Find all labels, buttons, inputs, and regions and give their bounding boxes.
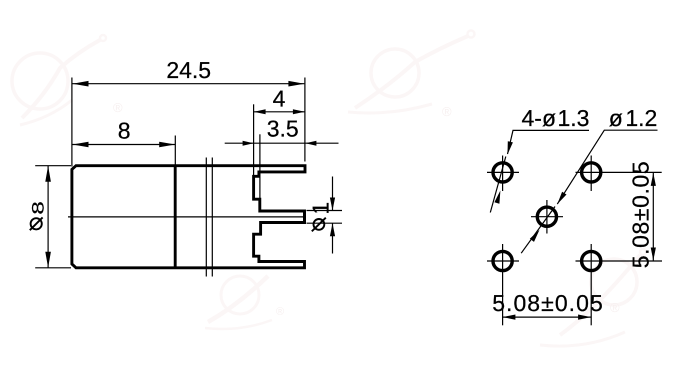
dim 24.5 extension line left bbox=[71, 78, 73, 167]
dim 4 extension line left bbox=[253, 104, 255, 176]
crosshair TR + right dim top extension bbox=[576, 171, 662, 173]
crosshair TL bbox=[487, 171, 519, 173]
center line of body bbox=[68, 216, 304, 218]
hole TR bbox=[582, 163, 601, 182]
crosshair M bbox=[531, 216, 563, 218]
dim dia1 extension bottom bbox=[307, 222, 343, 224]
dim dia8 extension bottom bbox=[35, 267, 71, 269]
svg-text:®: ® bbox=[610, 300, 620, 315]
dim 4 line bbox=[254, 111, 305, 113]
dim 3.5 extension line (inner step) bbox=[259, 134, 261, 199]
watermark logo bottom-right bbox=[540, 249, 646, 346]
crosshair BR + extensions bbox=[576, 260, 663, 262]
hole BR bbox=[582, 251, 601, 270]
svg-text:®: ® bbox=[276, 306, 284, 318]
leader 4-dia1.3 bbox=[508, 130, 590, 154]
leader dia1.2 bbox=[557, 130, 657, 204]
dim dia1 extension top bbox=[307, 210, 343, 212]
dim 3.5 line bbox=[225, 142, 339, 144]
dim dia1 line lower bbox=[332, 223, 334, 253]
prong end cap bbox=[303, 210, 306, 224]
dim 8 line bbox=[73, 144, 176, 146]
svg-text:5.08±0.05: 5.08±0.05 bbox=[492, 290, 604, 316]
svg-text:®: ® bbox=[442, 104, 452, 119]
dim 5.08 right line bbox=[652, 172, 654, 261]
dim dia8 line bbox=[47, 166, 49, 268]
thin double vertical lines (washer) bbox=[205, 158, 207, 277]
dim 8 extension line right bbox=[174, 136, 176, 166]
diameter line through hole M bbox=[521, 207, 555, 254]
svg-text:8: 8 bbox=[118, 118, 131, 144]
dim 24.5 line bbox=[73, 83, 305, 85]
hole TL bbox=[493, 163, 512, 182]
svg-text:24.5: 24.5 bbox=[166, 57, 211, 83]
crosshair BL + bottom dim left extension bbox=[487, 260, 519, 262]
hole M bbox=[537, 207, 556, 226]
dim 24.5 extension line right (shared with 4 and 3.5) bbox=[304, 78, 306, 162]
svg-text:4-ø1.3: 4-ø1.3 bbox=[522, 105, 590, 131]
jack body outline (side view) bbox=[72, 166, 305, 268]
dim 5.08 bottom line bbox=[502, 316, 591, 318]
svg-text:ø1.2: ø1.2 bbox=[609, 105, 658, 131]
dim dia8 extension top bbox=[35, 165, 71, 167]
svg-text:1: 1 bbox=[307, 202, 333, 215]
watermark logo top-center bbox=[348, 31, 475, 114]
svg-text:4: 4 bbox=[273, 85, 286, 111]
svg-text:8: 8 bbox=[28, 201, 47, 214]
watermark logo top-left bbox=[12, 35, 106, 125]
svg-text:®: ® bbox=[113, 100, 123, 115]
dim dia1 line upper bbox=[332, 177, 334, 211]
svg-text:5.08±0.05: 5.08±0.05 bbox=[628, 161, 654, 269]
diameter line through hole TL bbox=[490, 157, 506, 213]
watermark logo bottom-left bbox=[205, 276, 272, 329]
internal thick vertical line (front face edge) bbox=[174, 166, 177, 268]
svg-text:3.5: 3.5 bbox=[267, 116, 299, 142]
hole BL bbox=[493, 251, 512, 270]
